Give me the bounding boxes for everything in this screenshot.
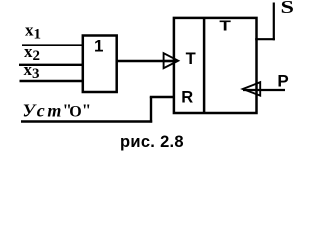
svg-text:S: S <box>281 0 295 17</box>
wire R input <box>150 96 174 98</box>
wire x3 <box>20 80 85 82</box>
wire S stub <box>255 38 275 40</box>
svg-text:рис. 2.8: рис. 2.8 <box>120 133 184 151</box>
flip-flop U2 box <box>174 18 257 113</box>
wire x2 <box>19 64 84 66</box>
svg-text:P: P <box>277 71 288 90</box>
wire S vertical <box>273 3 275 41</box>
wire stub through T triangle <box>164 60 177 62</box>
svg-text:О: О <box>69 104 81 121</box>
svg-text:1: 1 <box>94 37 103 56</box>
svg-text:Уст: Уст <box>23 101 64 121</box>
dynamic input triangle (T clock) <box>164 53 179 68</box>
wire x1 <box>22 44 84 46</box>
dynamic input triangle (P) <box>243 82 260 95</box>
wire set-zero horizontal <box>21 120 152 122</box>
OR gate U1 box <box>83 36 117 93</box>
svg-text:R: R <box>181 89 193 107</box>
svg-text:T: T <box>186 50 196 68</box>
svg-text:": " <box>82 100 91 119</box>
wire set-zero vertical jog <box>150 97 152 123</box>
wire P <box>243 89 285 91</box>
flip-flop section divider <box>203 18 206 113</box>
svg-text:T: T <box>219 18 231 35</box>
wire gate output to T input <box>117 60 177 62</box>
